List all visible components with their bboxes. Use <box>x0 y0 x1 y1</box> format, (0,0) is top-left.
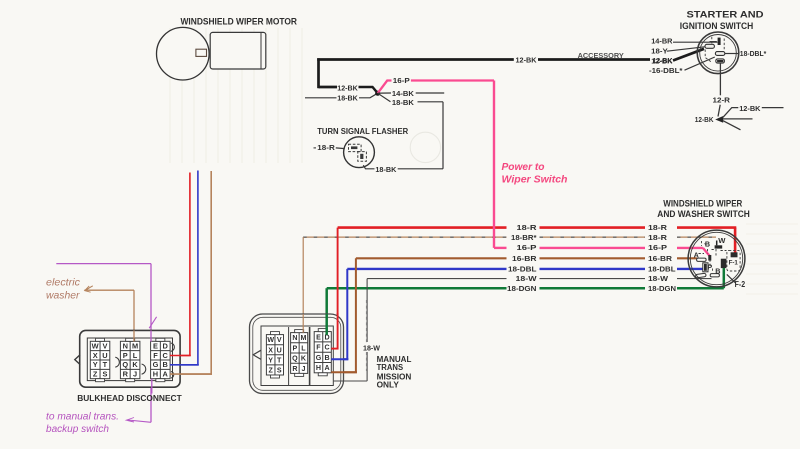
svg-text:W: W <box>92 341 99 350</box>
svg-text:H: H <box>153 370 158 379</box>
svg-text:F: F <box>316 344 321 352</box>
svg-text:U: U <box>277 346 282 354</box>
svg-text:R: R <box>123 370 129 379</box>
svg-text:S: S <box>102 370 107 379</box>
svg-text:N: N <box>292 334 297 342</box>
svg-text:E: E <box>316 333 321 341</box>
svg-text:18-DBL*: 18-DBL* <box>740 49 767 58</box>
svg-text:E: E <box>153 341 158 350</box>
svg-text:electric: electric <box>46 277 80 288</box>
svg-text:16-BR: 16-BR <box>512 254 537 263</box>
svg-text:18-BK: 18-BK <box>337 94 358 103</box>
svg-text:B: B <box>705 240 710 249</box>
svg-text:B: B <box>163 360 168 369</box>
svg-text:K: K <box>132 360 138 369</box>
svg-text:WINDSHIELD WIPER MOTOR: WINDSHIELD WIPER MOTOR <box>181 16 298 27</box>
svg-text:Power to: Power to <box>502 161 546 173</box>
svg-text:16-P: 16-P <box>648 243 667 252</box>
svg-text:-16-DBL*: -16-DBL* <box>649 66 683 75</box>
svg-text:Q: Q <box>122 360 128 369</box>
svg-text:M: M <box>132 341 138 350</box>
svg-text:Z: Z <box>93 370 98 379</box>
svg-text:backup switch: backup switch <box>46 424 109 435</box>
svg-text:H: H <box>316 364 321 372</box>
svg-text:F-1: F-1 <box>729 260 739 267</box>
svg-text:TRANS: TRANS <box>377 363 404 372</box>
svg-text:ACCESSORY: ACCESSORY <box>578 53 625 60</box>
svg-text:X: X <box>268 346 273 354</box>
svg-text:12-BK: 12-BK <box>695 115 714 124</box>
svg-text:WINDSHIELD WIPER: WINDSHIELD WIPER <box>663 199 742 209</box>
svg-text:R: R <box>292 365 297 373</box>
svg-text:X: X <box>93 351 98 360</box>
svg-text:18-DBL: 18-DBL <box>648 265 676 274</box>
svg-text:18-BK: 18-BK <box>375 165 397 174</box>
svg-text:18-Y: 18-Y <box>651 47 668 56</box>
svg-text:16-P: 16-P <box>393 76 410 85</box>
svg-text:A: A <box>324 364 329 372</box>
svg-text:G: G <box>316 354 322 362</box>
svg-text:V: V <box>102 341 107 350</box>
svg-text:Z: Z <box>269 366 274 374</box>
svg-text:18-R: 18-R <box>648 223 668 232</box>
svg-text:IGNITION SWITCH: IGNITION SWITCH <box>680 20 754 31</box>
svg-text:12-BK: 12-BK <box>651 56 673 65</box>
svg-text:14-BK: 14-BK <box>392 89 415 98</box>
svg-text:J: J <box>301 365 305 373</box>
svg-text:12-R: 12-R <box>713 96 731 105</box>
svg-text:12-BK: 12-BK <box>337 83 358 92</box>
svg-text:BULKHEAD DISCONNECT: BULKHEAD DISCONNECT <box>77 393 182 403</box>
svg-text:14-BR: 14-BR <box>651 37 673 46</box>
svg-text:18-DGN: 18-DGN <box>507 284 537 293</box>
svg-text:16-P: 16-P <box>517 243 537 252</box>
svg-text:18-R: 18-R <box>648 233 668 242</box>
svg-text:U: U <box>102 351 107 360</box>
svg-text:N: N <box>123 341 128 350</box>
svg-text:18-BK: 18-BK <box>392 98 415 107</box>
svg-text:C: C <box>324 344 329 352</box>
svg-text:12-BK: 12-BK <box>739 104 761 113</box>
svg-text:F-2: F-2 <box>735 280 746 289</box>
svg-text:W: W <box>267 336 274 344</box>
svg-text:J: J <box>133 370 137 379</box>
svg-text:D: D <box>163 341 169 350</box>
svg-text:L: L <box>301 344 306 352</box>
svg-text:L: L <box>133 351 138 360</box>
svg-text:STARTER AND: STARTER AND <box>687 8 764 19</box>
svg-text:C: C <box>163 351 169 360</box>
svg-text:A: A <box>694 251 699 260</box>
svg-text:T: T <box>103 360 108 369</box>
svg-text:18-W: 18-W <box>648 274 669 283</box>
svg-text:T: T <box>277 356 282 364</box>
svg-text:W: W <box>718 236 726 245</box>
svg-text:12-BK: 12-BK <box>516 56 538 65</box>
svg-text:18-R: 18-R <box>317 143 335 152</box>
svg-text:K: K <box>301 355 307 363</box>
svg-text:AND WASHER SWITCH: AND WASHER SWITCH <box>657 209 750 219</box>
svg-text:M: M <box>300 334 306 342</box>
svg-text:F: F <box>153 351 158 360</box>
svg-text:Wiper Switch: Wiper Switch <box>502 174 568 186</box>
svg-text:Y: Y <box>268 356 273 364</box>
svg-text:S: S <box>277 366 282 374</box>
svg-text:G: G <box>153 360 159 369</box>
svg-text:16-BR: 16-BR <box>648 254 673 263</box>
svg-text:B: B <box>324 354 329 362</box>
svg-text:TURN SIGNAL FLASHER: TURN SIGNAL FLASHER <box>317 127 408 136</box>
svg-text:to manual trans.: to manual trans. <box>46 412 119 423</box>
svg-text:V: V <box>277 336 282 344</box>
svg-text:18-W: 18-W <box>363 343 381 352</box>
svg-text:P: P <box>293 344 298 352</box>
svg-text:Q: Q <box>292 355 298 363</box>
svg-text:18-DGN: 18-DGN <box>648 284 676 293</box>
svg-text:B: B <box>715 266 720 275</box>
svg-text:P: P <box>123 351 128 360</box>
svg-text:A: A <box>163 370 169 379</box>
svg-text:P: P <box>707 263 712 272</box>
svg-text:Y: Y <box>93 360 98 369</box>
svg-text:18-W: 18-W <box>516 274 538 283</box>
svg-text:washer: washer <box>46 290 80 301</box>
svg-text:18-BR*: 18-BR* <box>511 233 537 242</box>
svg-text:18-DBL: 18-DBL <box>508 265 537 274</box>
svg-text:ONLY: ONLY <box>377 381 400 390</box>
svg-text:18-R: 18-R <box>517 223 538 232</box>
